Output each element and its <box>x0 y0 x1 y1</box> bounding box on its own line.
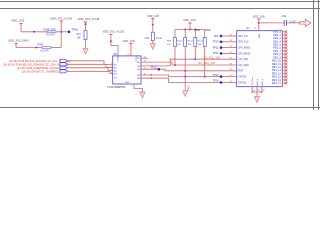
test point TP9 <box>214 34 223 38</box>
junction pullup2 on GPIO0 <box>184 76 186 78</box>
svg-text:TP17: TP17 <box>188 85 191 91</box>
U7 bottom pin labels <box>252 77 264 86</box>
resistor R101 pullup3 <box>188 30 197 60</box>
svg-text:VDD_3V3_VCCB: VDD_3V3_VCCB <box>50 16 72 20</box>
resistor R095 <box>33 28 56 36</box>
node dot <box>151 78 152 79</box>
sheet entry port 4 <box>22 70 68 74</box>
svg-text:NC/47K: NC/47K <box>41 49 50 52</box>
svg-text:VDD_1V8: VDD_1V8 <box>253 14 265 18</box>
pin numbers U7 left <box>230 34 233 82</box>
sheet border right outer line <box>318 0 320 110</box>
svg-text:(2A,3A) GPIO0/GT1_TAMPER(2): (2A,3A) GPIO0/GT1_TAMPER(2) <box>22 70 59 73</box>
svg-text:SPI_CS: SPI_CS <box>239 35 248 38</box>
IC U7 body <box>237 26 283 87</box>
svg-text:0.1uF: 0.1uF <box>156 37 163 40</box>
svg-text:NC/47K: NC/47K <box>47 34 56 37</box>
test point TP10 <box>151 65 161 70</box>
junction pullup4 on GPIO0 <box>204 76 206 78</box>
wire <box>56 31 69 33</box>
U6 left pin numbers <box>111 63 113 74</box>
svg-text:VDD_3V3_VCCB: VDD_3V3_VCCB <box>103 29 124 33</box>
svg-text:TH_Pad: TH_Pad <box>252 77 254 86</box>
wire riser from row2 <box>60 32 62 48</box>
wire SPI_CS row <box>221 35 237 37</box>
sheet border top outer line <box>0 1 320 3</box>
sheet entry port 1 <box>9 59 71 63</box>
svg-text:TP11: TP11 <box>213 45 220 49</box>
sheet entry port 3 <box>17 66 68 70</box>
junction node row1 <box>60 31 62 33</box>
ground branch from pullup2 <box>183 85 191 97</box>
wire from C49 <box>286 22 301 24</box>
wire VCCA <box>111 46 118 56</box>
svg-text:10K: 10K <box>188 44 192 46</box>
test point TP13 <box>213 73 223 78</box>
svg-text:GND: GND <box>125 82 130 84</box>
power port VDD_1V8 at U7 top <box>253 14 265 30</box>
resistor R096 <box>36 43 51 52</box>
wire SPI_MOSI row <box>221 52 237 54</box>
svg-text:TP16: TP16 <box>71 28 78 32</box>
svg-text:SPI_CLK: SPI_CLK <box>239 41 250 44</box>
svg-text:35: 35 <box>263 90 265 92</box>
svg-text:VDD_1V8: VDD_1V8 <box>183 18 196 22</box>
node dot <box>151 74 152 75</box>
power arrow right <box>300 19 312 26</box>
wire SPI_MISO row <box>221 47 237 49</box>
junction <box>194 28 196 30</box>
svg-text:VDD_1V8: VDD_1V8 <box>147 14 159 18</box>
test point TP16 <box>68 28 79 33</box>
svg-text:TXS0108EPWR: TXS0108EPWR <box>107 85 126 89</box>
svg-text:TP13: TP13 <box>213 73 220 77</box>
U6 top pin numbers <box>115 54 131 56</box>
wire SPI_CLK row <box>221 41 237 43</box>
wire port2 to U6 <box>68 64 113 67</box>
wire <box>85 40 87 49</box>
wire port3 to U6 <box>68 68 113 71</box>
svg-text:R97: R97 <box>77 33 82 36</box>
svg-text:10K: 10K <box>198 44 202 46</box>
wire U6 B5 to U7 GPIO0 <box>141 75 237 77</box>
svg-text:VDD_3V3_VCCB: VDD_3V3_VCCB <box>78 17 100 21</box>
svg-text:TP14: TP14 <box>213 79 220 83</box>
wire U6 B2 to U7 SDA <box>141 62 237 65</box>
svg-text:OE: OE <box>114 78 118 80</box>
svg-text:GPIO0: GPIO0 <box>239 76 247 79</box>
sheet border top inner line <box>0 8 320 10</box>
no-connect X marks <box>285 31 288 85</box>
U7 right pins RES_1..RES_17 <box>272 31 287 86</box>
svg-text:I2C_SDA_1V8: I2C_SDA_1V8 <box>198 61 215 65</box>
svg-text:VDD_3V3_SAV1: VDD_3V3_SAV1 <box>8 39 29 43</box>
svg-text:VDD_1V8: VDD_1V8 <box>123 39 135 43</box>
power port VDD_1V8 pullup rail <box>183 18 196 31</box>
svg-text:R100: R100 <box>177 41 183 43</box>
svg-text:I2C_SDA: I2C_SDA <box>239 64 250 67</box>
test point TP12 <box>213 51 223 55</box>
junction <box>184 28 186 30</box>
U6 right pin numbers <box>144 57 147 76</box>
power port VDD_3V3_VCCB pulldown column <box>78 17 100 30</box>
junction pullup2 on RST <box>184 70 186 72</box>
ground arrow <box>83 49 88 55</box>
sheet border right inner line <box>313 0 315 110</box>
svg-text:C48: C48 <box>145 37 150 40</box>
svg-text:U7: U7 <box>246 26 250 30</box>
svg-text:10K: 10K <box>77 36 82 39</box>
wire net row2 <box>16 47 42 49</box>
wire <box>152 41 154 44</box>
power port VDD_1V8 to U6 VCCB <box>123 39 135 56</box>
svg-text:I2C_SCL_1V8: I2C_SCL_1V8 <box>203 55 220 59</box>
wire U6 B4 to U7 RST <box>141 69 237 71</box>
svg-text:R102: R102 <box>198 41 204 43</box>
wire U6 B1 stub <box>141 57 148 59</box>
resistor R99 pullup1 <box>167 30 177 66</box>
ground U6 <box>134 84 145 98</box>
svg-text:SPI_MOSI: SPI_MOSI <box>239 52 251 55</box>
power port VDD_3V3 <box>11 19 25 32</box>
wire U6 B3 to U7 SCL <box>141 59 237 66</box>
svg-text:VCCB: VCCB <box>136 56 138 62</box>
power port VDD_3V3_SAV1 <box>8 39 29 48</box>
capacitor C49 <box>282 15 297 26</box>
test point TP14 <box>213 79 223 84</box>
resistor R100 pullup2 <box>177 30 187 91</box>
svg-text:R096: R096 <box>38 43 44 46</box>
svg-text:GPIO1: GPIO1 <box>239 81 247 84</box>
svg-text:TP9: TP9 <box>214 34 219 38</box>
U7 bottom ground <box>251 87 265 103</box>
svg-text:VDD_3V3: VDD_3V3 <box>11 19 25 23</box>
power port VDD_3V3_VCCB to U6 VCCA <box>103 29 124 45</box>
svg-text:RST: RST <box>239 70 244 73</box>
wire port1 to U6 <box>68 61 113 65</box>
junction pullup3 on SCL <box>194 58 196 60</box>
svg-text:AVD_2: AVD_2 <box>261 78 264 86</box>
wire pullup rail <box>175 29 205 31</box>
power port VDD_1V8 decoupling column <box>147 14 159 32</box>
wire to C49 <box>259 22 284 24</box>
sheet border bottom line <box>0 107 320 109</box>
power port VDD_3V3_VCCB <box>50 16 72 32</box>
IC U6 level shifter body <box>107 52 141 89</box>
svg-text:10K: 10K <box>167 44 171 46</box>
resistor R102 pullup4 <box>198 30 207 77</box>
svg-text:34: 34 <box>258 90 260 92</box>
capacitor C48 <box>145 32 163 40</box>
svg-text:R101: R101 <box>188 41 194 43</box>
svg-text:VCCA: VCCA <box>117 56 120 62</box>
U7 left pin labels <box>239 35 251 84</box>
svg-text:I2C_SCL: I2C_SCL <box>239 58 250 61</box>
junction <box>258 22 260 24</box>
junction pullup1 on SDA <box>174 64 176 66</box>
test point TP11 <box>213 45 223 49</box>
svg-text:RES_17: RES_17 <box>272 82 282 85</box>
svg-text:SPI_MISO: SPI_MISO <box>239 47 251 50</box>
svg-text:AVD_1: AVD_1 <box>256 78 259 86</box>
wire <box>51 47 61 49</box>
svg-text:TP10: TP10 <box>151 65 158 69</box>
ground arrow <box>150 44 155 50</box>
sheet entry port 2 <box>3 63 69 67</box>
svg-text:TP12: TP12 <box>213 51 220 55</box>
wire net row1 <box>21 31 47 33</box>
svg-text:33: 33 <box>253 90 255 92</box>
resistor R097 <box>77 31 88 40</box>
test point TP15 <box>213 40 223 44</box>
wire port4 to U6 <box>68 71 113 73</box>
svg-text:VDD: VDD <box>259 33 261 38</box>
wire U6 B6 to U7 GPIO1 <box>141 78 237 82</box>
svg-text:10K: 10K <box>177 44 181 46</box>
svg-text:C49: C49 <box>282 15 287 18</box>
svg-text:DNP: DNP <box>205 28 211 32</box>
svg-text:TP15: TP15 <box>213 40 220 44</box>
